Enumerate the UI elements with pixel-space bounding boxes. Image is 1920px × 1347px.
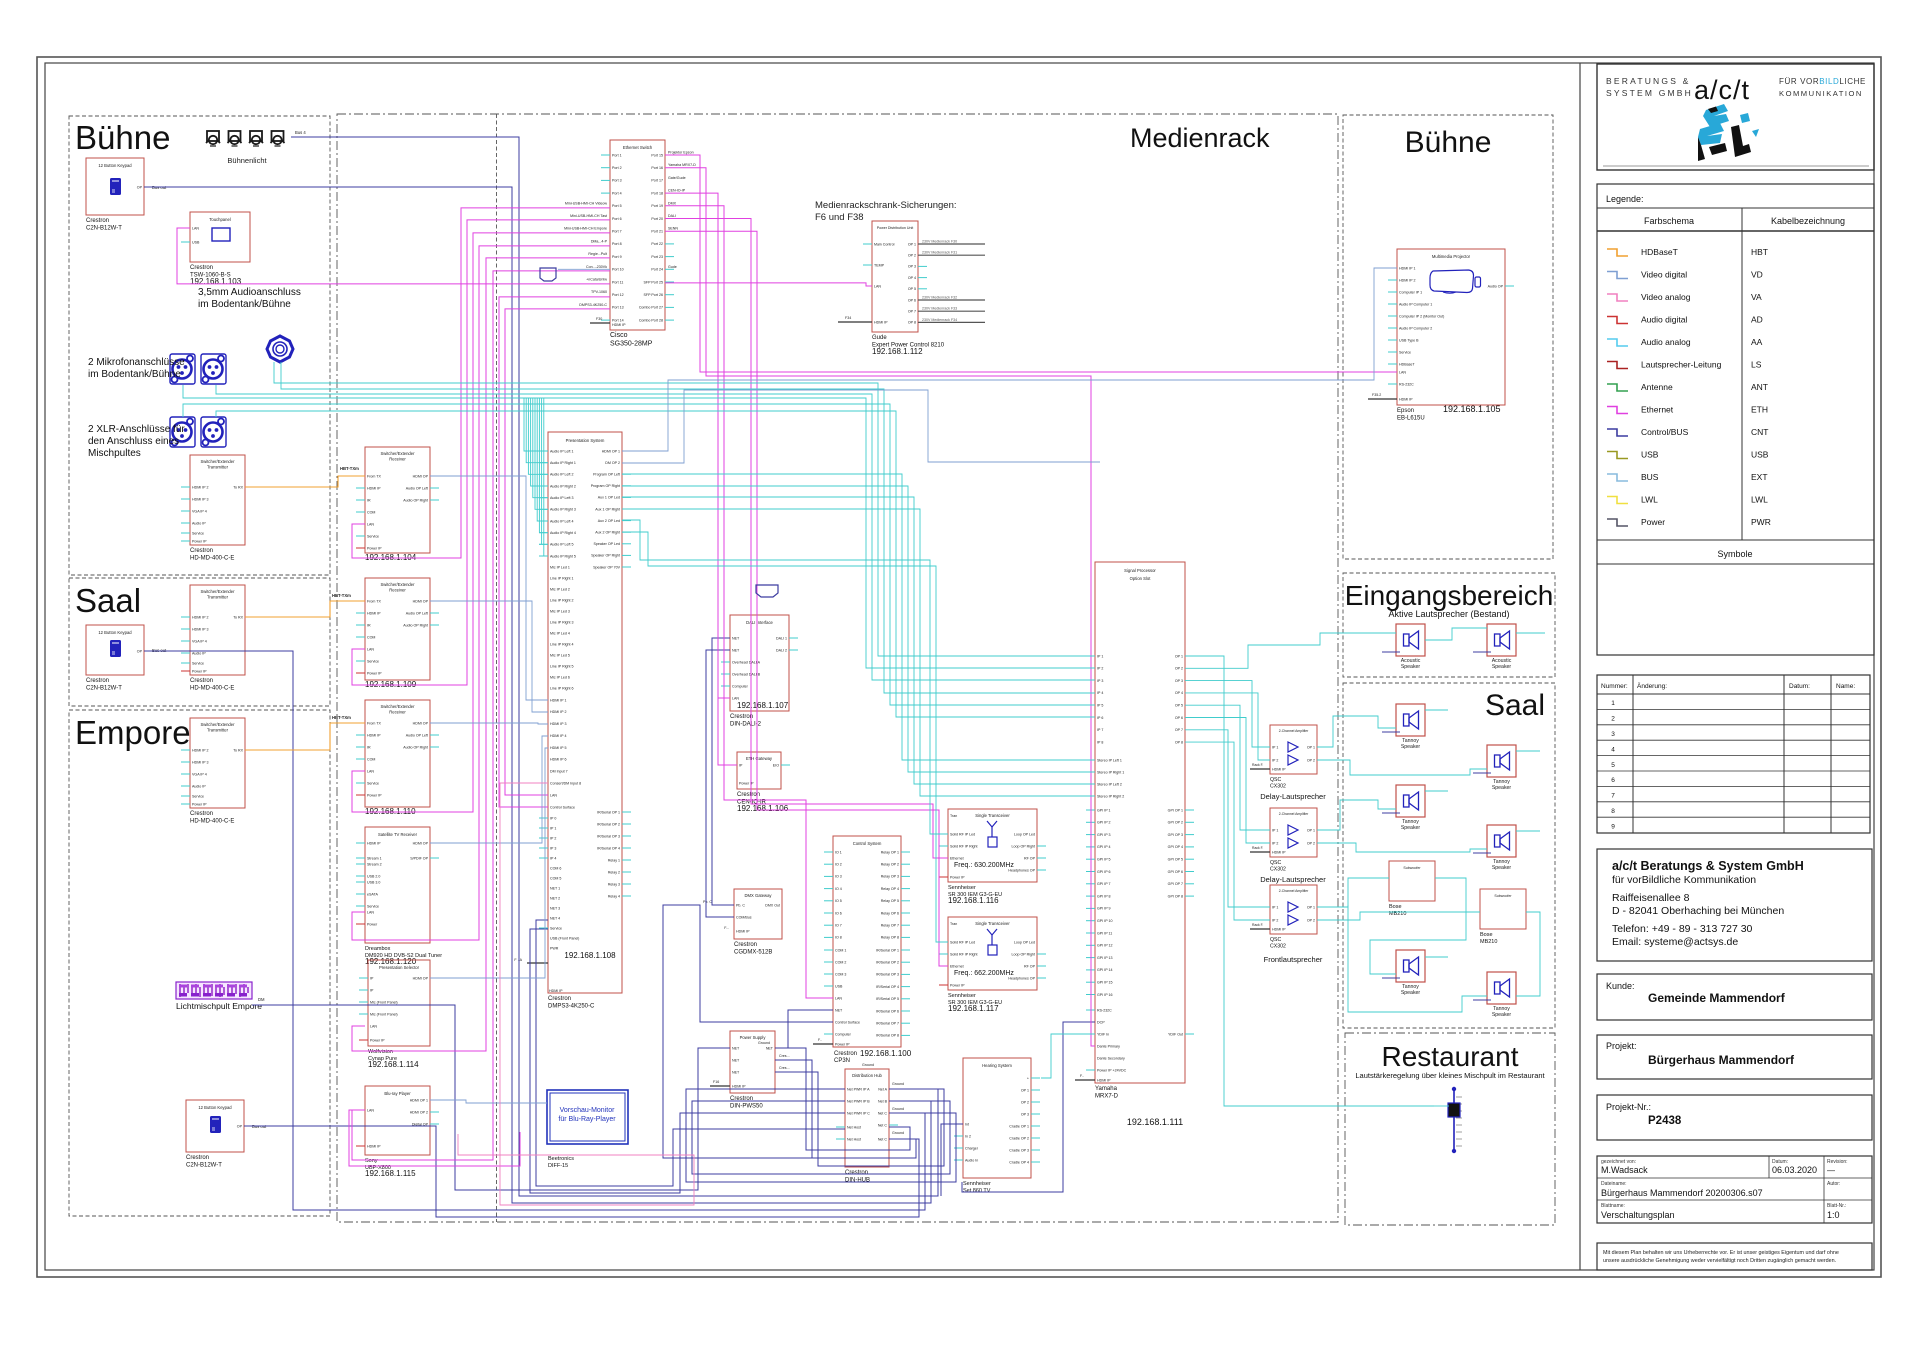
wire VD rx104 to presys <box>430 476 548 700</box>
svg-text:Mit diesem Plan behalten wir u: Mit diesem Plan behalten wir uns Urheber… <box>1603 1250 1839 1256</box>
svg-text:Port 4: Port 4 <box>612 191 622 195</box>
wire AA presys audio in 10 <box>539 398 548 556</box>
svg-text:Net C: Net C <box>878 1123 888 1127</box>
svg-text:OP 6: OP 6 <box>908 298 916 302</box>
svg-text:Aux 1 OP Right: Aux 1 OP Right <box>595 507 620 511</box>
wire AA yamaha op2 entrance <box>1185 633 1396 668</box>
svg-text:OP 1: OP 1 <box>1307 828 1315 832</box>
svg-text:Power IP: Power IP <box>950 875 965 879</box>
section frame Medienrack <box>337 114 1338 1222</box>
svg-text:Relay OP 5: Relay OP 5 <box>881 899 899 903</box>
svg-text:Antenne: Antenne <box>1641 382 1673 392</box>
svg-text:GPI IP 13: GPI IP 13 <box>1097 956 1113 960</box>
iem transmitter SR300 no2 <box>939 917 1046 1013</box>
wire LS ls8 feed <box>1473 999 1491 1001</box>
svg-text:Transmitter: Transmitter <box>207 595 229 600</box>
svg-text:From TX: From TX <box>367 599 382 603</box>
svg-text:C2N-B12W-T: C2N-B12W-T <box>186 1163 222 1169</box>
svg-text:Relay OP 4: Relay OP 4 <box>881 887 899 891</box>
svg-text:GPI OP 7: GPI OP 7 <box>1168 882 1183 886</box>
svg-text:GPI IP 2: GPI IP 2 <box>1097 821 1111 825</box>
svg-text:DMPS3-4K250-C: DMPS3-4K250-C <box>579 303 607 307</box>
svg-text:Port 9: Port 9 <box>612 255 622 259</box>
svg-text:DM: DM <box>258 997 265 1002</box>
svg-text:LAN: LAN <box>367 910 374 914</box>
svg-text:Transmitter: Transmitter <box>207 465 229 470</box>
svg-text:Medienrackschrank-Sicherungen:: Medienrackschrank-Sicherungen: <box>815 200 957 211</box>
section frame Buehne right <box>1343 115 1553 559</box>
wire AA program L <box>622 474 1095 760</box>
svg-text:IP 1: IP 1 <box>1272 828 1278 832</box>
svg-text:LAN: LAN <box>874 284 881 288</box>
svg-text:Sennheiser: Sennheiser <box>948 885 976 891</box>
svg-text:HDMI IP 6: HDMI IP 6 <box>550 758 567 762</box>
svg-text:BERATUNGS &: BERATUNGS & <box>1606 76 1691 86</box>
svg-text:HDBaseT: HDBaseT <box>1641 247 1678 257</box>
svg-text:Yamaha MRX7-D: Yamaha MRX7-D <box>668 163 696 167</box>
receiver RX2 192.168.1.109 <box>356 578 439 689</box>
svg-text:Crestron: Crestron <box>730 714 753 720</box>
touchpanel TP1 <box>181 212 250 286</box>
svg-text:Service: Service <box>192 531 204 535</box>
svg-text:DIFF-15: DIFF-15 <box>548 1163 568 1169</box>
svg-text:192.168.1.105: 192.168.1.105 <box>1443 404 1501 414</box>
svg-text:3: 3 <box>1611 731 1615 738</box>
speaker LS6 saal <box>1487 825 1516 871</box>
svg-text:Service: Service <box>550 926 562 930</box>
svg-text:Pb. C: Pb. C <box>703 900 712 904</box>
svg-text:IO 3: IO 3 <box>835 875 842 879</box>
dali interface DIN-DALI-2 <box>721 615 798 728</box>
svg-text:192.168.1.107: 192.168.1.107 <box>737 701 789 710</box>
svg-text:Main Control: Main Control <box>874 242 895 246</box>
svg-text:Receiver: Receiver <box>389 710 406 715</box>
svg-text:im Bodentank/Bühne: im Bodentank/Bühne <box>88 369 181 380</box>
svg-text:NET: NET <box>732 636 740 640</box>
svg-text:OP 8: OP 8 <box>908 321 916 325</box>
svg-text:HDMI IP 2: HDMI IP 2 <box>192 748 209 752</box>
disclaimer block <box>1597 1243 1872 1270</box>
svg-text:Net PWR IP A: Net PWR IP A <box>847 1087 870 1091</box>
svg-text:Projekt:: Projekt: <box>1606 1041 1637 1051</box>
svg-text:IR/Serial OP 6: IR/Serial OP 6 <box>876 1009 899 1013</box>
svg-text:YDIF In: YDIF In <box>1097 1032 1109 1036</box>
svg-text:2: 2 <box>1611 716 1615 723</box>
svg-text:12 Button Keypad: 12 Button Keypad <box>198 1105 232 1110</box>
svg-text:192.168.1.100: 192.168.1.100 <box>860 1049 912 1058</box>
wire VD monitor glyph to switch <box>558 268 610 270</box>
wire ETH dali LAN <box>718 697 730 699</box>
svg-text:IP 0: IP 0 <box>550 816 556 820</box>
svg-text:Power IP: Power IP <box>192 802 207 806</box>
svg-text:Symbole: Symbole <box>1717 549 1752 559</box>
svg-text:F..: F.. <box>1080 1074 1084 1078</box>
power distribution unit Gude <box>863 221 945 356</box>
svg-text:HBT-TXm: HBT-TXm <box>332 715 351 720</box>
wire ETH switch to senn2 <box>665 231 948 966</box>
svg-text:Bose: Bose <box>1389 904 1402 910</box>
wire LS amp3 op1 sub1 <box>1317 878 1389 907</box>
svg-text:GPI IP 16: GPI IP 16 <box>1097 993 1113 997</box>
svg-text:IP 2: IP 2 <box>1272 918 1278 922</box>
svg-text:Sony: Sony <box>365 1158 378 1164</box>
svg-text:Crestron: Crestron <box>86 218 109 224</box>
wire AA presys audio in 8 <box>539 398 548 533</box>
svg-text:für Blu-Ray-Player: für Blu-Ray-Player <box>558 1116 616 1123</box>
wire ETH sfp25 to PDU <box>665 283 872 286</box>
svg-text:HDMI IP 2: HDMI IP 2 <box>192 485 209 489</box>
wire LS ls4 feed <box>1473 772 1491 774</box>
svg-text:DM Input 7: DM Input 7 <box>550 770 568 774</box>
svg-text:Restaurant: Restaurant <box>1382 1041 1519 1072</box>
wire LS ls5 feed <box>1382 812 1400 814</box>
power supply DIN-PWS50 <box>710 1031 790 1110</box>
svg-text:Cradle OP 4: Cradle OP 4 <box>1009 1160 1029 1164</box>
svg-text:GPI IP 1: GPI IP 1 <box>1097 808 1111 812</box>
svg-text:Port 3: Port 3 <box>612 179 622 183</box>
svg-text:Crestron: Crestron <box>734 942 757 948</box>
svg-text:OP 4: OP 4 <box>908 276 916 280</box>
svg-text:USB 3.0: USB 3.0 <box>367 880 380 884</box>
svg-text:Crestron: Crestron <box>190 265 213 271</box>
svg-text:Revision:: Revision: <box>1827 1159 1848 1165</box>
svg-text:HD-MD-400-C-E: HD-MD-400-C-E <box>190 556 234 562</box>
wire AA yamaha op3 amp1 <box>1185 681 1270 747</box>
svg-text:HDMI IP: HDMI IP <box>367 841 381 845</box>
speaker LS4 saal <box>1487 745 1516 791</box>
wire AA presys audio in 7 <box>537 398 548 521</box>
svg-text:IP 3: IP 3 <box>550 846 556 850</box>
svg-text:Switcher/Extender: Switcher/Extender <box>381 704 416 709</box>
svg-text:Dreambox: Dreambox <box>365 946 391 952</box>
svg-text:LAN: LAN <box>835 996 842 1000</box>
svg-text:IP 1: IP 1 <box>1272 745 1278 749</box>
wire ETH switch to Yamaha Dante <box>665 168 1095 1046</box>
wire LS ls1 feed <box>1382 651 1400 653</box>
svg-text:Mic IP Led 1: Mic IP Led 1 <box>550 565 570 569</box>
wire LS ls7 stub <box>1425 956 1448 958</box>
svg-text:Freq.: 630.200MHz: Freq.: 630.200MHz <box>954 862 1014 869</box>
svg-text:MRX7-D: MRX7-D <box>1095 1094 1119 1100</box>
svg-text:Line IP Right 3: Line IP Right 3 <box>550 620 574 624</box>
svg-text:Crestron: Crestron <box>190 548 213 554</box>
svg-text:Satellite TV Receiver: Satellite TV Receiver <box>378 832 418 837</box>
svg-text:Epson: Epson <box>1397 408 1414 414</box>
svg-text:ETH: ETH <box>1751 405 1768 415</box>
PDU mains output lines <box>838 240 985 323</box>
svg-text:IR/Serial OP 2: IR/Serial OP 2 <box>597 822 620 826</box>
svg-text:Mini-USB-HMI-CH Tast: Mini-USB-HMI-CH Tast <box>570 214 607 218</box>
svg-text:Audio OP Right: Audio OP Right <box>403 623 428 627</box>
svg-text:Touchpanel: Touchpanel <box>209 217 230 222</box>
wire ETH switch to sat <box>352 246 610 940</box>
svg-text:IP 2: IP 2 <box>550 836 556 840</box>
svg-text:Freq.: 662.200MHz: Freq.: 662.200MHz <box>954 970 1014 977</box>
wire AA program R <box>622 486 1095 772</box>
svg-text:USB 2.0: USB 2.0 <box>367 874 380 878</box>
svg-text:Audio OP: Audio OP <box>1488 284 1504 288</box>
svg-text:Port 2: Port 2 <box>612 166 622 170</box>
svg-text:EIO: EIO <box>773 763 779 767</box>
svg-text:Name:: Name: <box>1836 683 1855 690</box>
svg-text:192.168.1.111: 192.168.1.111 <box>1127 1117 1183 1127</box>
keypad K2 Saal <box>86 625 167 692</box>
svg-text:LAN: LAN <box>550 793 557 797</box>
svg-text:Con...-230Vk: Con...-230Vk <box>586 265 607 269</box>
svg-text:Audio IP Right 5: Audio IP Right 5 <box>550 554 576 558</box>
svg-text:HDMI IP: HDMI IP <box>874 320 888 324</box>
svg-text:PWR: PWR <box>1751 517 1771 527</box>
wire AA jack L <box>274 362 1095 656</box>
wire LS ls6 stub <box>1516 830 1540 832</box>
svg-text:OP 2: OP 2 <box>1307 841 1315 845</box>
svg-text:GPI IP 5: GPI IP 5 <box>1097 858 1111 862</box>
svg-text:GPI IP 12: GPI IP 12 <box>1097 944 1113 948</box>
kunde block <box>1597 974 1872 1020</box>
svg-text:Switcher/Extender: Switcher/Extender <box>381 451 416 456</box>
svg-text:IP 2: IP 2 <box>1097 667 1103 671</box>
svg-text:S/PDIF OP: S/PDIF OP <box>410 856 428 860</box>
svg-text:GPI IP 14: GPI IP 14 <box>1097 968 1113 972</box>
svg-text:192.168.1.115: 192.168.1.115 <box>365 1169 416 1178</box>
svg-text:Telefon: +49 - 89 - 313 727 30: Telefon: +49 - 89 - 313 727 30 <box>1612 923 1753 935</box>
svg-text:IR/Serial OP 7: IR/Serial OP 7 <box>876 1022 899 1026</box>
svg-text:Cisco: Cisco <box>610 332 628 339</box>
svg-text:Eingangsbereich: Eingangsbereich <box>1345 580 1554 611</box>
presentation system DMPS3 <box>514 432 631 1010</box>
svg-text:VGA IP 4: VGA IP 4 <box>192 509 207 513</box>
wire CNT hub net b loop <box>692 1101 950 1174</box>
svg-text:PWR: PWR <box>550 946 559 950</box>
svg-text:Blu-ray Player: Blu-ray Player <box>384 1091 411 1096</box>
svg-text:Ground: Ground <box>862 1063 874 1067</box>
svg-text:HDMI IP 2: HDMI IP 2 <box>1399 278 1416 282</box>
svg-text:Bürgerhaus Mammendorf 20200306: Bürgerhaus Mammendorf 20200306.s07 <box>1601 1188 1763 1198</box>
wire ETH switch to bluray <box>352 271 610 1160</box>
wire LS amp2 op1 ls5 <box>1317 800 1396 830</box>
svg-text:8: 8 <box>1611 808 1615 815</box>
svg-text:Line IP Right 2: Line IP Right 2 <box>550 598 574 602</box>
svg-text:Vorschau-Monitor: Vorschau-Monitor <box>560 1107 616 1114</box>
svg-text:192.168.1.103: 192.168.1.103 <box>190 277 242 286</box>
svg-text:AA: AA <box>1751 337 1763 347</box>
speaker LS3 saal <box>1396 704 1425 750</box>
svg-text:Crestron: Crestron <box>548 996 571 1002</box>
svg-text:eSATA: eSATA <box>367 892 378 896</box>
svg-text:From TX: From TX <box>367 474 382 478</box>
svg-text:Line IP Right 4: Line IP Right 4 <box>550 642 574 646</box>
svg-text:230V Medienrack F33: 230V Medienrack F33 <box>922 307 957 311</box>
svg-text:Audio OP Right: Audio OP Right <box>403 745 428 749</box>
svg-text:HDMI IP: HDMI IP <box>367 733 381 737</box>
svg-text:Ethernet: Ethernet <box>1641 405 1674 415</box>
svg-text:Cradle OP 1: Cradle OP 1 <box>1009 1124 1029 1128</box>
svg-text:LS: LS <box>1751 360 1762 370</box>
speaker LS1 entrance <box>1396 624 1425 670</box>
svg-text:QSC: QSC <box>1270 777 1281 783</box>
wire AA presys audio in 5 <box>533 398 548 498</box>
svg-text:IP 4: IP 4 <box>1097 691 1103 695</box>
svg-text:LAN: LAN <box>367 1108 374 1112</box>
svg-text:Solid RF IP Right: Solid RF IP Right <box>950 844 978 848</box>
svg-text:Relay 3: Relay 3 <box>608 882 620 886</box>
wire HBT tx2 to rx109 <box>245 601 365 617</box>
svg-text:im Bodentank/Bühne: im Bodentank/Bühne <box>198 299 291 310</box>
wire HBT tx3 to rx110 <box>245 723 365 750</box>
svg-text:Audio IP Right 3: Audio IP Right 3 <box>550 508 576 512</box>
svg-text:LAN: LAN <box>192 226 199 230</box>
svg-text:Aux 2 OP Right: Aux 2 OP Right <box>595 531 620 535</box>
svg-text:IR/Serial OP 3: IR/Serial OP 3 <box>876 973 899 977</box>
svg-text:Yamaha: Yamaha <box>1095 1086 1118 1092</box>
svg-text:Beetronics: Beetronics <box>548 1156 574 1162</box>
svg-text:DIN-PWS50: DIN-PWS50 <box>730 1104 763 1110</box>
svg-text:HDMI IP: HDMI IP <box>736 929 750 933</box>
svg-text:DMX Gateway: DMX Gateway <box>745 893 773 898</box>
svg-text:Crestron: Crestron <box>190 811 213 817</box>
svg-text:IR: IR <box>367 745 371 749</box>
svg-text:OP 3: OP 3 <box>1175 679 1183 683</box>
svg-text:GPI OP 6: GPI OP 6 <box>1168 870 1183 874</box>
svg-text:Net PWR IP C: Net PWR IP C <box>847 1111 870 1115</box>
svg-text:Audio IP Computer 1: Audio IP Computer 1 <box>1399 302 1432 306</box>
svg-text:12 Button Keypad: 12 Button Keypad <box>98 163 132 168</box>
svg-text:NET: NET <box>732 648 740 652</box>
svg-text:230V Medienrack F32: 230V Medienrack F32 <box>922 296 957 300</box>
svg-text:Kabelbezeichnung: Kabelbezeichnung <box>1771 216 1845 226</box>
svg-text:Rack F.: Rack F. <box>1252 846 1263 850</box>
svg-text:Set 860 TV: Set 860 TV <box>963 1188 991 1194</box>
wire LS amp2 op2 ls6 <box>1317 843 1487 852</box>
svg-text:Consert/DM Input 8: Consert/DM Input 8 <box>550 782 581 786</box>
svg-text:Relay 2: Relay 2 <box>608 870 620 874</box>
svg-text:Audio IP Left 4: Audio IP Left 4 <box>550 519 574 523</box>
svg-text:Audio OP Left: Audio OP Left <box>406 733 428 737</box>
svg-text:QSC: QSC <box>1270 937 1281 943</box>
svg-text:Audio OP Left: Audio OP Left <box>406 486 428 490</box>
svg-text:DALI 1: DALI 1 <box>776 636 787 640</box>
dmx gateway CGMX <box>703 889 782 956</box>
svg-text:Loop OP Right: Loop OP Right <box>1011 844 1035 848</box>
wire HBT tx1 to rx104 <box>245 476 365 487</box>
wire AA mic2 <box>216 385 1095 680</box>
svg-text:Audio IP Left 2: Audio IP Left 2 <box>550 473 574 477</box>
svg-text:HDMI IP: HDMI IP <box>612 323 626 327</box>
svg-text:OP 1: OP 1 <box>1307 745 1315 749</box>
svg-text:Ground: Ground <box>892 1082 904 1086</box>
svg-text:F...: F... <box>724 926 729 930</box>
wire AA presys audio in 6 <box>535 398 548 509</box>
control system CP3N <box>813 836 912 1064</box>
wire AA yamaha op5 amp2 <box>1185 705 1270 830</box>
svg-text:IP 7: IP 7 <box>1097 728 1103 732</box>
transmitter TX1 Buehne <box>181 455 245 562</box>
svg-text:Email: systeme@actsys.de: Email: systeme@actsys.de <box>1612 936 1738 948</box>
wire ETH switch to presel <box>352 258 610 1051</box>
svg-text:Ground: Ground <box>892 1131 904 1135</box>
svg-text:VA: VA <box>1751 292 1762 302</box>
svg-text:HDMI IP: HDMI IP <box>367 1144 381 1148</box>
wire AA senn2 in <box>622 532 948 942</box>
svg-text:unsere ausdrückliche Genehmigu: unsere ausdrückliche Genehmigung weder v… <box>1603 1258 1836 1264</box>
svg-text:Audio IP Left 3: Audio IP Left 3 <box>550 496 574 500</box>
wire VD presel to presys <box>430 748 548 978</box>
svg-text:Bühne: Bühne <box>1405 126 1492 159</box>
svg-text:IP 4: IP 4 <box>550 856 556 860</box>
svg-text:Crestron: Crestron <box>86 678 109 684</box>
hdmi plug symbol <box>756 585 778 597</box>
svg-text:HDMI OP: HDMI OP <box>413 474 429 478</box>
wire CNT keypad3 Empore to rack <box>244 1126 919 1217</box>
svg-text:192.168.1.106: 192.168.1.106 <box>737 804 789 813</box>
svg-text:COM: COM <box>367 757 375 761</box>
svg-text:Cres...: Cres... <box>779 1066 790 1070</box>
svg-text:Audio IP Left 5: Audio IP Left 5 <box>550 543 574 547</box>
svg-text:IP: IP <box>370 976 374 980</box>
svg-text:2-Channel Amplifier: 2-Channel Amplifier <box>1279 812 1309 816</box>
svg-text:Relay OP 7: Relay OP 7 <box>881 924 899 928</box>
svg-text:HDMI IP 1: HDMI IP 1 <box>1399 266 1416 270</box>
svg-text:Switcher/Extender: Switcher/Extender <box>201 722 236 727</box>
svg-text:HD-MD-400-C-E: HD-MD-400-C-E <box>190 819 234 825</box>
svg-text:IR/Serial OP 8: IR/Serial OP 8 <box>876 1034 899 1038</box>
svg-text:Delay-Lautsprecher: Delay-Lautsprecher <box>1260 792 1326 801</box>
svg-text:HDMI IP 2: HDMI IP 2 <box>550 710 567 714</box>
svg-text:Switcher/Extender: Switcher/Extender <box>381 582 416 587</box>
svg-text:Mini-USB-HMI-CH Videow: Mini-USB-HMI-CH Videow <box>565 201 607 205</box>
text Medienrack-Sicherungen <box>815 200 957 223</box>
svg-text:Port 14: Port 14 <box>612 318 624 322</box>
svg-text:Stereo IP Left 2: Stereo IP Left 2 <box>1097 782 1122 786</box>
switch port labels <box>564 151 696 328</box>
svg-text:Charger: Charger <box>965 1146 979 1150</box>
monitor symbol top <box>540 268 556 281</box>
svg-text:230V Medienrack F30: 230V Medienrack F30 <box>922 240 957 244</box>
svg-text:Audio IP Left 1: Audio IP Left 1 <box>550 449 574 453</box>
svg-text:Empore: Empore <box>75 714 191 751</box>
wire AA yamaha op7 amp3 <box>1185 730 1270 907</box>
svg-text:Control Surface: Control Surface <box>550 805 575 809</box>
right panel divider <box>1579 63 1581 1270</box>
svg-text:Relay OP 6: Relay OP 6 <box>881 911 899 915</box>
svg-text:USB: USB <box>835 984 843 988</box>
iem transmitter SR300 no1 <box>939 809 1046 905</box>
svg-text:GPI OP 1: GPI OP 1 <box>1168 808 1183 812</box>
svg-text:Bürgerhaus Mammendorf: Bürgerhaus Mammendorf <box>1648 1053 1795 1067</box>
svg-text:COM 2: COM 2 <box>835 960 846 964</box>
svg-text:EB-L615U: EB-L615U <box>1397 416 1425 422</box>
svg-text:OP: OP <box>237 1124 243 1128</box>
svg-text:Solid RF IP Led: Solid RF IP Led <box>950 832 975 836</box>
wire LS ls6 feed <box>1473 852 1491 854</box>
svg-text:Relay 1: Relay 1 <box>608 858 620 862</box>
svg-text:Port 22: Port 22 <box>651 242 663 246</box>
svg-text:Port 24: Port 24 <box>651 268 663 272</box>
svg-text:To RX: To RX <box>233 748 243 752</box>
svg-text:Overhead DALI B: Overhead DALI B <box>732 672 761 676</box>
svg-text:C2N-B12W-T: C2N-B12W-T <box>86 686 122 692</box>
wire AA yamaha op1 restaurant <box>1185 656 1434 1106</box>
section frame Buehne left <box>69 116 330 575</box>
section frame Restaurant <box>1345 1033 1555 1225</box>
svg-text:COM 5: COM 5 <box>550 876 561 880</box>
svg-text:a/c/t Beratungs & System GmbH: a/c/t Beratungs & System GmbH <box>1612 859 1804 873</box>
svg-text:Presentation Selector: Presentation Selector <box>379 965 420 970</box>
svg-text:CX302: CX302 <box>1270 867 1286 873</box>
svg-text:230V Medienrack F31: 230V Medienrack F31 <box>922 251 957 255</box>
svg-text:Power IP +24VDC: Power IP +24VDC <box>1097 1068 1127 1072</box>
svg-text:Service: Service <box>192 661 204 665</box>
